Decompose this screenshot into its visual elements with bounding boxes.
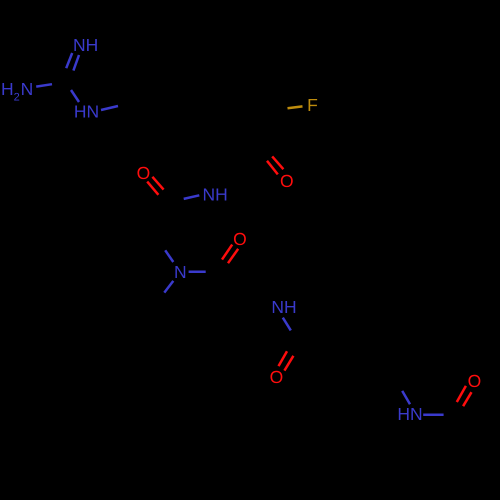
bond C=O benzamide double bond (red halves) [279, 351, 288, 366]
bond C=O amide1 double bond (red halves) [152, 177, 163, 190]
bond ring C-NH acetamide (blue half) [402, 391, 410, 404]
bond N-C2 pyrrolidine (blue half, up-left) [165, 250, 173, 262]
bond HN-C(=O) acetamide (blue half) [423, 414, 443, 417]
bond C=O pyrrolidine amide double bond (red halves) [222, 245, 232, 260]
svg-text:O: O [468, 371, 482, 391]
svg-text:HN: HN [397, 404, 422, 424]
bond C-NH (guanidine, blue half) [71, 90, 79, 102]
svg-text:O: O [280, 171, 294, 191]
svg-text:F: F [307, 95, 318, 115]
svg-text:O: O [270, 367, 284, 387]
bond C=NH double bond (guanidine imine, blue halves) [66, 53, 72, 68]
bond N-C(=O) pyrrolidine amide (blue half, right) [189, 271, 206, 274]
svg-text:N: N [174, 262, 187, 282]
bond C-NH amide1 (blue half) [184, 195, 200, 199]
bond NH-C(=O) amide2 (blue half) [283, 318, 291, 331]
bond H2N-C (guanidine, blue half) [36, 84, 52, 86]
bond C=O ketone double bond (red halves) [272, 156, 283, 169]
svg-text:O: O [233, 229, 247, 249]
bond C=O acetamide double bond (red halves) [457, 386, 466, 402]
bond HN-CH2 (guanidine to chain, blue half) [101, 106, 118, 110]
bond N-C5 pyrrolidine (blue half, down-left) [164, 281, 173, 293]
svg-text:NH: NH [271, 297, 296, 317]
svg-text:HN: HN [74, 102, 99, 122]
bond CH2-F (gold half) [288, 106, 303, 108]
svg-text:O: O [137, 163, 151, 183]
svg-text:NH: NH [73, 35, 98, 55]
svg-text:NH: NH [203, 184, 228, 204]
